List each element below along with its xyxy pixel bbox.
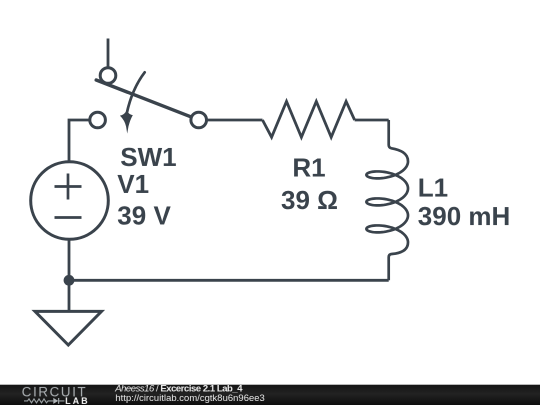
svg-text:V1: V1 [117, 169, 149, 199]
voltage source V1 plus sign [55, 174, 82, 200]
svg-text:SW1: SW1 [120, 142, 176, 172]
switch SW1 lever [96, 80, 192, 117]
node A junction dot [64, 275, 75, 286]
svg-text:390 mH: 390 mH [418, 201, 511, 231]
switch SW1 arrowhead [120, 112, 133, 134]
svg-text:LAB: LAB [65, 396, 90, 405]
wire resistor to inductor top [355, 119, 389, 122]
svg-text:http://circuitlab.com/cgtk8u6n: http://circuitlab.com/cgtk8u6n96ee3 [115, 393, 264, 404]
wire ground node to bottom rail [69, 279, 389, 282]
CircuitLab logo diode triangle [53, 398, 58, 404]
resistor R1 zigzag [263, 101, 355, 137]
switch SW1 actuation arrow arc [127, 72, 145, 113]
CircuitLab logo schematic: wire, resistor zigzag, diode [24, 398, 64, 404]
wire from source bottom to ground node [68, 239, 71, 280]
switch SW1 right terminal circle [191, 112, 207, 128]
svg-text:R1: R1 [292, 153, 325, 183]
switch SW1 left terminal circle [90, 112, 106, 128]
wire switch right terminal to resistor [206, 119, 262, 122]
voltage source V1 minus sign [55, 216, 82, 219]
ground stem wire [68, 280, 71, 311]
svg-text:L1: L1 [418, 173, 448, 203]
svg-text:39 V: 39 V [117, 200, 171, 230]
switch SW1 top terminal circle [100, 68, 116, 84]
inductor L1 coil [366, 120, 408, 280]
voltage source V1 circle [31, 162, 109, 240]
switch SW1 open throw stub [107, 39, 110, 69]
svg-text:39 Ω: 39 Ω [281, 185, 338, 215]
ground triangle [35, 311, 102, 345]
wire from switch left terminal to source top [69, 120, 90, 161]
